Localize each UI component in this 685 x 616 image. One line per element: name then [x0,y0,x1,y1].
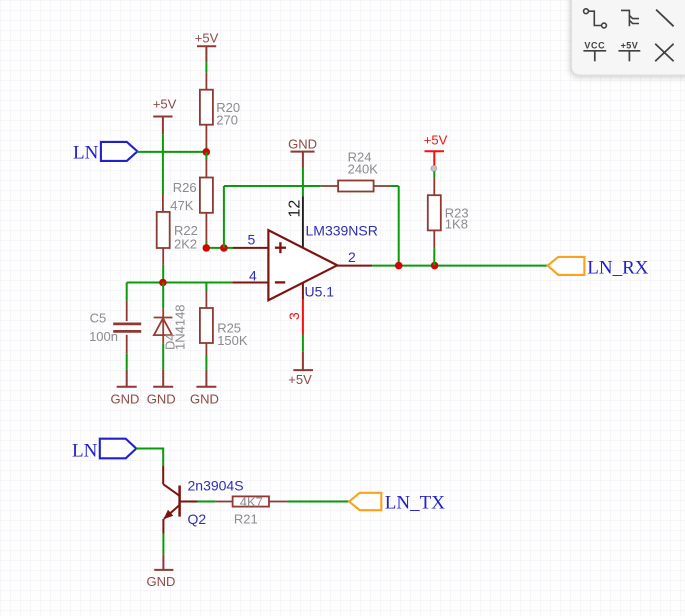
junction LN node [203,148,211,156]
resistor R20 [200,73,213,147]
svg-text:+5V: +5V [195,31,219,46]
transistor Q2 [163,466,179,534]
op-amp plus mark [275,242,286,253]
svg-text:100n: 100n [89,329,118,344]
wire GND to pin 12 [302,168,304,197]
svg-text:GND: GND [147,391,176,406]
net port LN_TX [349,492,445,513]
svg-text:2K2: 2K2 [174,237,197,252]
wire D4 to GND [162,344,164,370]
svg-text:R26: R26 [173,180,197,195]
svg-text:GND: GND [111,391,140,406]
svg-text:LM339NSR: LM339NSR [306,223,378,239]
svg-text:2n3904S: 2n3904S [188,478,244,494]
toolbar icon bus [621,10,639,26]
svg-text:+5V: +5V [424,133,448,148]
wire R22 to -input node [162,265,164,283]
toolbar icon wire [584,9,607,28]
toolbar icon X [655,44,673,62]
wire -input to D4 [162,283,164,309]
pin 4 [232,282,268,284]
junction feedback/+input [220,244,228,252]
svg-text:150K: 150K [217,333,248,348]
svg-text:VCC: VCC [584,40,605,50]
pin 12 [302,196,304,248]
toolbar panel [572,0,685,75]
wire base to R21 [198,501,216,503]
junction R23/output [431,262,439,270]
toolbar icon +5V [618,40,640,61]
svg-text:LN: LN [72,440,98,461]
power +5V symbol (bottom, pin 3) [288,352,313,387]
svg-text:240K: 240K [348,162,379,177]
wire pin3 red highlight [302,300,304,335]
svg-text:270: 270 [216,113,238,128]
power +5V symbol (red, above R23) [424,133,448,167]
resistor R24 [321,181,391,192]
diode D4 [154,308,173,344]
wire LN to collector [136,449,163,467]
toolbar icon VCC [583,40,606,61]
ground GND symbol (R25) [190,369,219,406]
resistor R26 [200,160,213,241]
ground GND symbol (C5) [111,369,140,406]
toolbar icon line [656,10,674,27]
wire LN port to node [137,151,206,153]
resistor R21 [216,496,287,506]
wire R26 to +input node [205,241,207,248]
svg-text:12: 12 [286,200,303,218]
wire emitter to GND [162,534,164,555]
svg-text:+5V: +5V [153,97,177,112]
junction R26/+input [203,244,211,252]
svg-text:+5V: +5V [621,40,638,50]
wire R20 to LN node [205,147,207,152]
svg-text:GND: GND [190,391,219,406]
svg-text:5: 5 [248,232,256,248]
svg-text:U5.1: U5.1 [305,284,335,300]
pin 2 [337,265,372,267]
base pin Q2 [180,501,198,503]
op-amp U5.1 [268,230,337,300]
ground GND symbol (D4) [147,369,176,406]
ground GND symbol (top, pin 12) [288,137,317,168]
node unconnected marker [431,166,437,172]
wire +5V to R23 [433,171,435,177]
svg-text:LN_TX: LN_TX [385,492,445,513]
wire -input down to C5 [126,283,128,301]
svg-text:+5V: +5V [288,372,312,387]
wire output row [372,265,548,267]
wire R24 to output column [391,185,399,187]
power +5V symbol (top, above R20) [195,31,219,63]
pin 3 [302,283,304,300]
net port LN_RX [548,257,649,279]
resistor R22 [157,194,170,265]
svg-text:2: 2 [348,249,356,265]
op-amp minus mark [275,281,285,283]
svg-text:C5: C5 [90,310,107,325]
svg-text:R21: R21 [234,512,258,527]
svg-text:GND: GND [146,574,175,589]
junction R22/-input [159,279,167,287]
svg-text:4K7: 4K7 [240,494,263,509]
svg-text:1N4148: 1N4148 [172,304,187,350]
pin 5 [233,247,268,249]
svg-text:LN_RX: LN_RX [587,257,649,278]
power +5V symbol (left, above R22) [153,97,177,135]
ground GND symbol (Q2) [146,554,175,589]
svg-text:Q2: Q2 [188,511,207,527]
wire LN node to R26 [205,152,207,160]
wire -input row [127,282,233,284]
transistor Q2 emitter arrow [164,510,174,519]
svg-text:GND: GND [288,137,317,152]
resistor R25 [200,291,213,356]
svg-text:4: 4 [249,268,257,284]
wire +input row [206,247,233,249]
wire C5 to GND [126,353,128,369]
svg-text:LN: LN [73,142,99,163]
wire feedback horizontal to R24 [224,185,321,187]
capacitor C5 [113,301,141,354]
resistor R23 [428,177,441,248]
wire R25 to GND [205,356,207,369]
wire R23 to output [433,248,435,265]
wire feedback vertical [223,186,225,248]
wire output column vertical [398,186,400,266]
wire pin3 to +5V [302,335,304,352]
wire R21 to LN_TX [287,501,349,503]
net port LN (top) [73,142,137,164]
svg-text:3: 3 [286,312,302,320]
wire +5V to R20 [205,62,207,72]
svg-text:1K8: 1K8 [445,217,468,232]
svg-text:47K: 47K [170,198,193,213]
junction feedback/output [395,262,403,270]
net port LN (bottom) [72,439,136,462]
wire -input row down to R25 [205,283,207,292]
wire +5V left down to R22 [162,134,164,194]
